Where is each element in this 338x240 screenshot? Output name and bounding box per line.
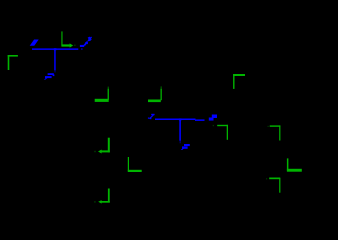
corner bracket G3 (bottom-right corner)	[148, 86, 162, 102]
pin number label 5 (right of N2)	[209, 115, 217, 121]
current arrow I3 (green elbow, points left)	[94, 189, 110, 204]
current arrow I2 (green elbow, points left)	[94, 138, 110, 154]
wire net N2 vertical stub	[179, 120, 181, 141]
corner bracket G2 (bottom-right corner)	[95, 87, 109, 102]
corner bracket G1 (top-left corner)	[8, 55, 18, 70]
pin number label 1 (left of N1)	[30, 40, 39, 46]
wire net N1 vertical stub	[54, 50, 56, 71]
corner bracket G6 (top-right corner)	[213, 125, 228, 140]
node J2 junction	[179, 118, 182, 120]
corner bracket G9 (top-right corner)	[266, 178, 280, 193]
corner bracket G5 (bottom-left corner)	[128, 157, 142, 172]
wire net N2 horizontal	[155, 119, 196, 121]
pin number label 2 (right of N1)	[80, 37, 92, 50]
pin number label 3 (below N1 stub)	[44, 73, 55, 79]
current arrow I1 (green elbow, points right)	[61, 31, 75, 47]
corner bracket G7 (top-right corner)	[268, 125, 281, 140]
wire net N1 horizontal	[32, 48, 78, 50]
pin number label 6 (below N2 stub)	[181, 144, 190, 150]
node J1 junction	[54, 48, 57, 50]
pin number label 4 (left of N2)	[148, 114, 155, 119]
corner bracket G8 (bottom-left corner)	[287, 158, 302, 171]
corner bracket G4 (top-left corner)	[233, 74, 245, 89]
